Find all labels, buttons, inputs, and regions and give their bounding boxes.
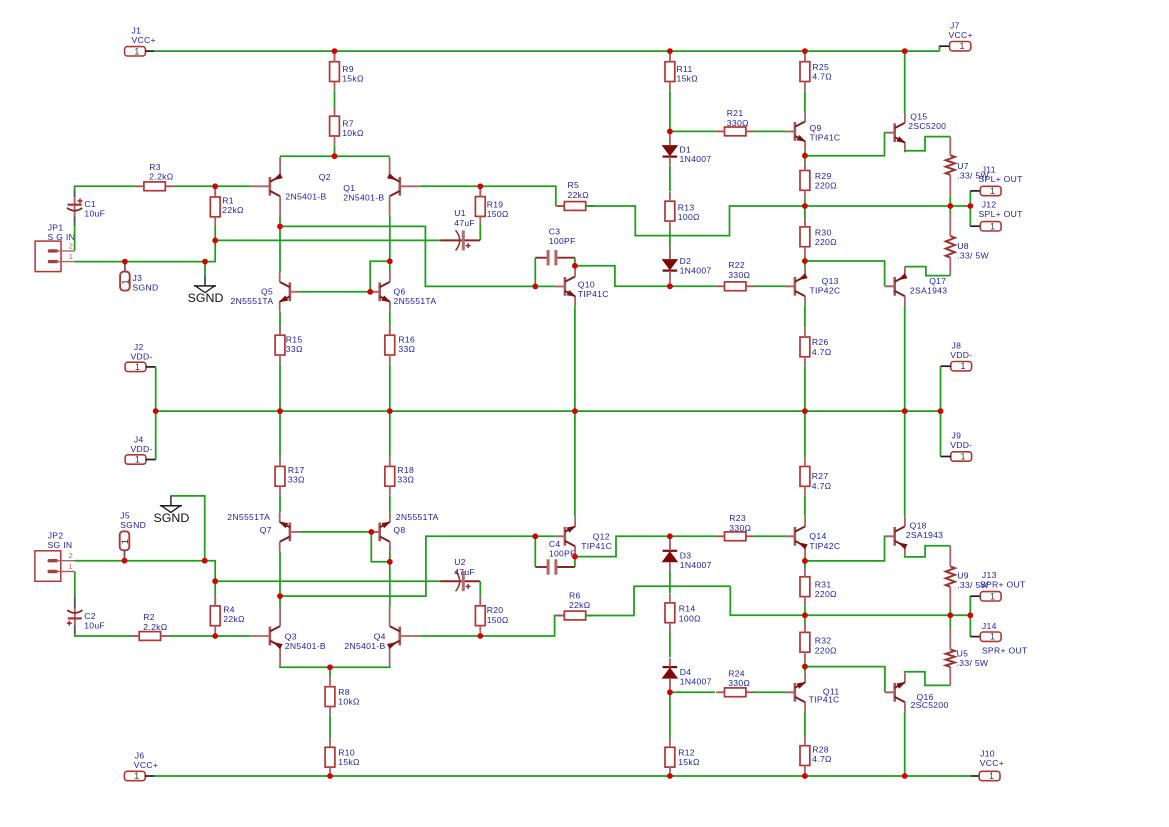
wire R32 bottom: [804, 662, 806, 667]
resistor R4: [210, 597, 245, 635]
resistor R23: [716, 513, 754, 541]
svg-text:2.2kΩ: 2.2kΩ: [143, 622, 167, 632]
junction Q14 emitter node: [802, 558, 808, 564]
wire J11 drop: [969, 191, 971, 206]
connector J8: [951, 361, 972, 371]
wire JP1 pin1: [74, 261, 125, 263]
svg-text:R21: R21: [727, 108, 744, 118]
connector J13: [980, 591, 1001, 601]
junction rail/Q17Q18: [902, 408, 908, 414]
junction top rail / R9: [332, 48, 338, 54]
svg-text:2N5401-B: 2N5401-B: [285, 192, 326, 202]
junction SGND tap: [202, 259, 208, 265]
label J12: [979, 200, 1024, 220]
wire J8 drop: [940, 366, 942, 411]
wire R23 row: [670, 535, 717, 537]
wire R11-D1: [669, 91, 671, 131]
svg-text:22kΩ: 22kΩ: [222, 205, 244, 215]
junction out node L1: [947, 203, 953, 209]
wire J10 stub: [971, 775, 979, 777]
svg-text:33Ω: 33Ω: [398, 344, 415, 354]
wire J8 stub: [941, 365, 951, 367]
diode D2: [663, 246, 712, 280]
junction D1 top / R21 node: [667, 129, 673, 135]
transistor Q7: [227, 512, 299, 551]
wire R30node to Q17: [805, 261, 885, 286]
svg-text:C3: C3: [549, 227, 561, 237]
svg-text:33Ω: 33Ω: [397, 474, 414, 484]
wire R29 bottom: [804, 200, 806, 206]
svg-text:Q3: Q3: [285, 632, 297, 642]
wire Q7 base to Q8: [300, 531, 372, 533]
resistor U7: [946, 155, 990, 180]
capacitor C3: [535, 227, 575, 266]
power symbol SGND top: [188, 276, 224, 306]
label J4: [131, 435, 153, 455]
svg-text:U5: U5: [957, 649, 969, 659]
wire J6 stub: [145, 775, 154, 777]
resistor R8: [325, 677, 360, 715]
junction J5 tap: [122, 558, 128, 564]
svg-text:Q10: Q10: [578, 279, 595, 289]
pin U5 top: [949, 628, 951, 649]
svg-text:2N5551TA: 2N5551TA: [396, 512, 439, 522]
svg-text:VDD-: VDD-: [131, 352, 153, 362]
svg-text:VCC+: VCC+: [980, 758, 1004, 768]
resistor R17: [275, 457, 305, 495]
junction SGND tap bottom: [202, 558, 208, 564]
wire R25-Q9: [804, 91, 806, 112]
wire R13-D2: [669, 230, 671, 259]
connector J4: [125, 455, 146, 465]
pin U8 top: [949, 214, 951, 237]
wire J11 stub: [970, 190, 980, 192]
junction R20 bottom node: [477, 633, 483, 639]
svg-text:220Ω: 220Ω: [815, 589, 837, 599]
pin Q14 base: [785, 535, 795, 537]
pin R6 left: [556, 615, 564, 617]
wire R1 top pin: [214, 186, 216, 197]
svg-text:J7: J7: [950, 20, 960, 30]
connector J3: [120, 272, 131, 291]
svg-text:R23: R23: [729, 513, 746, 523]
svg-text:R2: R2: [143, 612, 155, 622]
wire Q15 collector: [904, 51, 906, 113]
svg-text:47uF: 47uF: [454, 218, 475, 228]
wire U2 to R20: [479, 581, 481, 596]
svg-text:TIP41C: TIP41C: [578, 289, 609, 299]
svg-text:1: 1: [990, 221, 995, 231]
capacitor U1: [440, 208, 480, 250]
pin Q11 base: [785, 691, 795, 693]
pin R5 left: [556, 205, 564, 207]
capacitor C2: [67, 597, 105, 635]
svg-text:2N5551TA: 2N5551TA: [231, 296, 274, 306]
svg-text:15kΩ: 15kΩ: [678, 757, 700, 767]
wire base node to Q2: [215, 185, 250, 187]
wire J7 stub: [940, 45, 950, 47]
wire Q8 tie: [371, 532, 390, 562]
svg-text:R15: R15: [286, 335, 303, 345]
svg-text:33Ω: 33Ω: [288, 474, 305, 484]
wire Q5 emitter: [279, 312, 281, 336]
capacitor C4: [535, 539, 575, 575]
svg-text:330Ω: 330Ω: [727, 118, 749, 128]
pin Q12 base: [555, 535, 565, 537]
resistor R10: [325, 738, 360, 776]
svg-text:4.7Ω: 4.7Ω: [812, 72, 832, 82]
junction top rail / Q15: [902, 48, 908, 54]
wire R20 bottom: [479, 634, 481, 637]
wire J4 stub: [146, 459, 156, 461]
svg-text:330Ω: 330Ω: [728, 270, 750, 280]
wire Q14em to Q18 base: [805, 536, 885, 561]
wire R2 to R4node: [169, 635, 215, 637]
svg-text:U7: U7: [957, 161, 969, 171]
svg-text:J4: J4: [134, 435, 144, 445]
junction Q7-Q8 base node: [368, 529, 374, 535]
junction Q6 tie node: [387, 258, 393, 264]
junction Q10 base node: [532, 284, 538, 290]
svg-text:R6: R6: [569, 591, 581, 601]
svg-text:1: 1: [120, 279, 131, 284]
label J13: [980, 570, 1026, 590]
svg-text:100PF: 100PF: [549, 549, 576, 559]
wire Q7 emitter: [279, 496, 281, 513]
wire J2-J4 drop: [155, 367, 157, 460]
svg-text:U9: U9: [957, 570, 969, 580]
wire Q13 coll: [804, 306, 806, 328]
svg-text:47uF: 47uF: [454, 567, 475, 577]
svg-text:SGND: SGND: [188, 291, 224, 305]
wire D3-R14: [669, 572, 671, 594]
svg-text:33Ω: 33Ω: [286, 344, 303, 354]
wire R12 top: [669, 692, 671, 738]
svg-text:R27: R27: [812, 471, 829, 481]
wire Q18em stair: [905, 546, 951, 557]
svg-text:1: 1: [69, 562, 74, 571]
svg-text:TIP41C: TIP41C: [810, 132, 841, 142]
svg-text:R7: R7: [342, 119, 354, 129]
svg-text:1: 1: [990, 186, 995, 196]
junction rail/R15: [277, 408, 283, 414]
resistor R26: [800, 328, 832, 366]
wire J3 stub: [124, 262, 126, 272]
pin Q18 base: [885, 535, 895, 537]
svg-text:SG IN: SG IN: [48, 540, 73, 550]
wire Q15 emitter stair: [905, 137, 951, 151]
svg-text:C2: C2: [84, 611, 96, 621]
resistor R11: [665, 52, 698, 90]
connector J5: [120, 531, 131, 550]
wire Q2 coll to Q5: [279, 226, 281, 272]
wire J1 stub: [145, 50, 154, 52]
wire R25 top: [804, 51, 806, 62]
wire R14-D4: [669, 632, 671, 657]
svg-text:R26: R26: [812, 337, 829, 347]
svg-text:Q1: Q1: [343, 183, 355, 193]
junction R8 node: [327, 664, 333, 670]
pin Q13 base: [785, 285, 795, 287]
capacitor C1: [67, 190, 105, 225]
svg-text:1: 1: [134, 771, 139, 781]
svg-text:1N4007: 1N4007: [680, 265, 712, 275]
wire R27 top: [804, 411, 806, 457]
label JP1: [48, 223, 76, 243]
svg-text:TIP41C: TIP41C: [581, 541, 612, 551]
junction Q9 emitter node: [802, 153, 808, 159]
wire R20node to R6: [480, 616, 556, 637]
wire Q11 emitter link: [804, 667, 806, 673]
wire VCC+ bottom rail: [154, 775, 971, 777]
junction out node R1: [947, 612, 953, 618]
svg-text:J5: J5: [120, 511, 130, 521]
wire R24 row: [670, 691, 715, 693]
resistor R15: [275, 326, 303, 364]
junction Q5-Q6 base node: [367, 289, 373, 295]
wire R9-R7: [334, 91, 336, 116]
junction D3 top node: [667, 533, 673, 539]
wire R19 bottom: [479, 224, 481, 240]
svg-text:Q9: Q9: [810, 123, 822, 133]
junction Q12 coll node: [572, 554, 578, 560]
junction D4 bottom node: [667, 689, 673, 695]
svg-text:D4: D4: [680, 667, 692, 677]
resistor R22: [716, 260, 754, 290]
svg-text:R17: R17: [288, 465, 305, 475]
svg-text:22kΩ: 22kΩ: [568, 190, 590, 200]
wire Q1 base: [419, 185, 480, 187]
svg-text:J1: J1: [132, 26, 142, 36]
junction R31-R32 node: [802, 612, 808, 618]
wire Q7 coll: [279, 552, 281, 597]
power symbol SGND bottom: [153, 495, 189, 525]
wire R8-R10: [329, 716, 331, 738]
diode D3: [663, 542, 712, 574]
svg-text:R31: R31: [815, 579, 832, 589]
resistor R27: [800, 457, 832, 495]
wire R32 top: [804, 615, 806, 632]
resistor R25: [800, 52, 832, 90]
wire R8 top: [329, 667, 331, 677]
label JP2: [48, 531, 73, 551]
wire R16 bottom: [389, 364, 391, 411]
wire C4 right leg: [574, 557, 576, 567]
transistor Q3: [251, 607, 326, 666]
pin Q8 base: [371, 531, 379, 533]
wire mid row right: [670, 206, 950, 236]
resistor R18: [385, 457, 415, 495]
wire U2 row: [215, 580, 441, 582]
svg-text:10uF: 10uF: [84, 620, 105, 630]
svg-text:R10: R10: [338, 748, 355, 758]
wire Q8 emitter: [389, 496, 391, 513]
svg-text:VCC+: VCC+: [949, 30, 973, 40]
svg-text:TIP41C: TIP41C: [809, 695, 840, 705]
wire C3 left leg: [534, 258, 536, 287]
wire Q2 collector: [279, 216, 281, 227]
resistor U5: [946, 649, 989, 669]
svg-text:C1: C1: [84, 199, 96, 209]
svg-text:TIP42C: TIP42C: [809, 541, 840, 551]
svg-text:1N4007: 1N4007: [680, 560, 712, 570]
junction R29-R30 node: [802, 203, 808, 209]
wire Q6 tie: [370, 261, 390, 292]
wire Q5 base to Q6: [300, 291, 371, 293]
junction R32 bottom node: [802, 664, 808, 670]
pin Q17 base: [885, 285, 895, 287]
label J14: [982, 621, 1028, 656]
svg-text:SPR+ OUT: SPR+ OUT: [980, 580, 1026, 590]
resistor R14: [665, 594, 701, 632]
pin Q10 base: [555, 285, 565, 287]
wire base node to Q3: [215, 635, 250, 637]
transistor Q13: [785, 267, 840, 306]
svg-text:R4: R4: [223, 605, 235, 615]
junction bottom rail / R28: [802, 773, 808, 779]
junction bottom rail / R10: [327, 773, 333, 779]
resistor R13: [665, 192, 700, 230]
svg-text:R14: R14: [679, 604, 696, 614]
svg-text:150Ω: 150Ω: [487, 615, 509, 625]
wire J7 jog: [940, 46, 942, 51]
svg-text:22kΩ: 22kΩ: [569, 600, 591, 610]
svg-text:220Ω: 220Ω: [815, 645, 837, 655]
svg-text:Q5: Q5: [261, 286, 273, 296]
svg-text:2SA1943: 2SA1943: [910, 285, 947, 295]
connector J6: [124, 771, 145, 781]
wire R21 to Q9: [754, 130, 785, 132]
pin U8 bottom: [949, 258, 951, 276]
label J8: [950, 340, 972, 360]
svg-text:1: 1: [990, 632, 995, 642]
wire R7 bottom: [334, 145, 336, 156]
svg-text:Q13: Q13: [822, 276, 839, 286]
svg-text:Q17: Q17: [929, 276, 946, 286]
wire row A: [280, 226, 535, 286]
wire J13 stub: [970, 595, 980, 597]
resistor R29: [800, 161, 837, 199]
wire row A bottom: [280, 536, 535, 596]
svg-text:U1: U1: [454, 208, 466, 218]
svg-text:4.7Ω: 4.7Ω: [812, 347, 832, 357]
resistor U9: [946, 566, 990, 590]
svg-text:U8: U8: [957, 241, 969, 251]
label J11: [979, 164, 1024, 184]
svg-text:R9: R9: [342, 64, 354, 74]
wire J14 stub: [970, 636, 980, 638]
svg-text:1: 1: [989, 771, 994, 781]
wire Q6 emitter: [389, 312, 391, 336]
svg-text:R12: R12: [678, 748, 695, 758]
wire R30 top: [804, 206, 806, 227]
svg-text:SPL+ OUT: SPL+ OUT: [979, 209, 1024, 219]
pin U7 top: [949, 137, 951, 156]
junction bottom rail / R12: [667, 773, 673, 779]
svg-text:SPL+ OUT: SPL+ OUT: [979, 174, 1024, 184]
wire Q3 emitter row: [280, 665, 330, 667]
transistor Q2: [251, 157, 331, 216]
svg-text:J2: J2: [134, 342, 144, 352]
wire C3 right leg: [574, 258, 576, 266]
pin D3 top: [669, 536, 671, 551]
label J2: [131, 342, 153, 362]
wire D2 to junction: [669, 271, 671, 287]
wire to Q10 base: [535, 285, 555, 287]
svg-text:R32: R32: [815, 636, 832, 646]
junction rail/J2J4: [153, 408, 159, 414]
resistor R21: [716, 108, 754, 136]
svg-text:R5: R5: [568, 180, 580, 190]
junction rail/R26R27: [802, 408, 808, 414]
wire R31 top: [804, 561, 806, 568]
junction bottom rail / Q16: [902, 773, 908, 779]
svg-text:15kΩ: 15kΩ: [677, 74, 699, 84]
resistor R32: [800, 623, 837, 661]
svg-text:R28: R28: [812, 744, 829, 754]
label J3: [133, 273, 159, 293]
pin Q15 base: [885, 132, 895, 134]
junction rail/R16: [387, 408, 393, 414]
svg-text:J9: J9: [952, 431, 962, 441]
transistor Q4: [344, 607, 419, 666]
svg-text:10kΩ: 10kΩ: [338, 697, 360, 707]
wire R6 row down: [730, 586, 950, 615]
label J6: [134, 750, 158, 770]
wire to Q12 base: [535, 535, 555, 537]
svg-text:J11: J11: [982, 164, 996, 174]
svg-text:VDD-: VDD-: [131, 444, 153, 454]
wire J14 drop: [969, 615, 971, 636]
svg-text:2N5401-B: 2N5401-B: [285, 641, 326, 651]
svg-text:VCC+: VCC+: [134, 760, 158, 770]
svg-text:150Ω: 150Ω: [487, 209, 509, 219]
wire R22 row: [670, 285, 717, 287]
wire Q16 coll: [904, 712, 906, 776]
wire D1-R13: [669, 166, 671, 192]
svg-text:1: 1: [135, 362, 140, 372]
svg-text:R8: R8: [338, 687, 350, 697]
svg-text:SGND: SGND: [153, 511, 189, 525]
svg-text:R24: R24: [728, 668, 745, 678]
wire Q2-Q1 emitter rail: [280, 155, 390, 157]
wire R6 right: [586, 586, 731, 615]
wire VCC+ top rail: [154, 50, 940, 52]
transistor Q11: [785, 673, 839, 712]
wire R19 node to R5: [480, 186, 556, 206]
transistor Q5: [231, 272, 300, 311]
wire R21 row: [670, 130, 717, 132]
wire R23 to Q14: [754, 535, 785, 537]
junction Q12 base node: [532, 533, 538, 539]
connector J7: [950, 41, 971, 51]
label J1: [132, 26, 156, 46]
svg-text:2.2kΩ: 2.2kΩ: [149, 171, 173, 181]
svg-text:2N5551TA: 2N5551TA: [394, 296, 437, 306]
svg-text:J14: J14: [982, 621, 997, 631]
svg-text:Q4: Q4: [374, 632, 386, 642]
svg-text:R13: R13: [678, 203, 695, 213]
wire J5 stub: [124, 550, 126, 561]
connector JP2: [35, 551, 75, 582]
svg-text:100Ω: 100Ω: [678, 212, 700, 222]
connector JP1: [35, 241, 75, 272]
wire Q13 emitter link: [804, 261, 806, 267]
wire R15 bottom: [279, 364, 281, 411]
wire R1 bottom: [214, 226, 216, 240]
svg-text:SGND: SGND: [133, 283, 159, 293]
connector J12: [980, 221, 1001, 231]
